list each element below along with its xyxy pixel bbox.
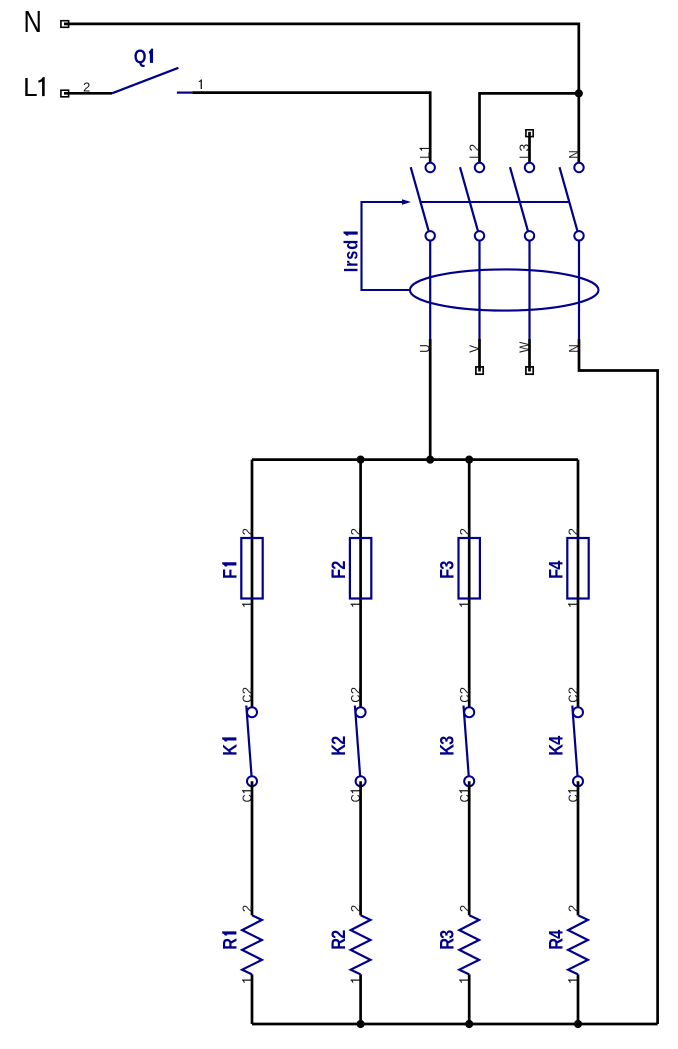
RCD Irsd1 toroid ellipse bbox=[410, 269, 599, 310]
wire bottom bus bbox=[252, 1023, 658, 1026]
RCD Irsd1 blade pole1 bbox=[411, 167, 429, 231]
svg-text:F: F bbox=[219, 569, 241, 579]
wire through fuse F4 bbox=[577, 538, 580, 599]
contact K3 upper circle bbox=[464, 707, 474, 717]
resistor R3 bbox=[459, 915, 479, 974]
svg-text:C: C bbox=[566, 694, 581, 702]
wire L3 terminal to RCD L3 pole bbox=[528, 132, 531, 168]
contact K3 lower circle bbox=[464, 776, 474, 786]
svg-text:F2: F2 bbox=[328, 561, 350, 579]
svg-text:2: 2 bbox=[457, 687, 472, 694]
svg-text:N: N bbox=[565, 151, 581, 159]
contact K1 blade bbox=[246, 706, 251, 777]
svg-text:2: 2 bbox=[457, 528, 472, 535]
svg-text:L: L bbox=[23, 72, 37, 102]
wire W output to terminal bbox=[528, 339, 531, 372]
wire contact K4 to resistor R4 bbox=[577, 781, 580, 915]
wire contact K1 to resistor R1 bbox=[251, 781, 254, 915]
svg-text:Q: Q bbox=[134, 46, 147, 68]
wire through fuse F1 bbox=[251, 538, 254, 599]
svg-text:K3: K3 bbox=[436, 736, 458, 756]
svg-text:C: C bbox=[457, 694, 472, 702]
svg-text:2: 2 bbox=[348, 687, 363, 694]
svg-text:2: 2 bbox=[240, 528, 255, 535]
svg-text:K2: K2 bbox=[328, 736, 350, 756]
svg-text:R4: R4 bbox=[545, 930, 567, 950]
terminal square W bbox=[526, 367, 533, 374]
svg-text:2: 2 bbox=[240, 905, 255, 912]
svg-text:K4: K4 bbox=[545, 736, 567, 756]
svg-text:2: 2 bbox=[83, 79, 90, 94]
fuse F2 bbox=[350, 538, 371, 599]
svg-text:2: 2 bbox=[348, 905, 363, 912]
junction dot top bus branch2 bbox=[357, 456, 365, 464]
wire L2 branch from N junction bbox=[480, 93, 579, 167]
contact K2 upper circle bbox=[356, 707, 366, 717]
RCD Irsd1 arrowhead bbox=[402, 199, 411, 205]
wire pole4 lower contact to toroid exit (blue) bbox=[578, 236, 580, 339]
RCD Irsd1 blade pole3 bbox=[510, 167, 528, 231]
fuse F3 bbox=[459, 538, 480, 599]
terminal square V bbox=[476, 367, 483, 374]
svg-text:2: 2 bbox=[466, 144, 482, 152]
wire N return: RCD N output right and down to bottom bus bbox=[579, 339, 658, 1024]
wire N: from N terminal right then down to RCD N pole bbox=[64, 24, 579, 168]
wire resistor R3 to bottom bus bbox=[468, 974, 471, 1024]
wire contact K3 to resistor R3 bbox=[468, 781, 471, 915]
junction dot bottom bus branch2 bbox=[357, 1020, 365, 1028]
RCD Irsd1 lower contact circles bbox=[426, 231, 435, 240]
wire resistor R1 to bottom bus bbox=[251, 974, 254, 1024]
branch 2 wire: top bus to fuse F2 bbox=[359, 460, 362, 538]
branch 1 wire: top bus to fuse F1 bbox=[251, 460, 254, 538]
wire pole3 lower contact to toroid exit (blue) bbox=[528, 236, 530, 339]
pin 1 of F2 bbox=[351, 604, 361, 607]
contact K1 upper circle bbox=[247, 707, 257, 717]
RCD Irsd1 blade pole4 bbox=[560, 167, 578, 231]
svg-text:2: 2 bbox=[457, 905, 472, 912]
wire Q1 to RCD L1 pole bbox=[192, 93, 430, 168]
svg-text:L: L bbox=[516, 152, 532, 158]
pin 1 of F4 bbox=[568, 604, 578, 607]
svg-text:N: N bbox=[24, 5, 42, 40]
svg-text:R2: R2 bbox=[328, 930, 350, 950]
RCD Irsd1 top contact circles bbox=[426, 163, 435, 172]
RCD Irsd1 coupling bar bbox=[420, 201, 570, 203]
svg-text:3: 3 bbox=[516, 144, 532, 152]
wire pole1 lower contact to toroid exit (blue) bbox=[429, 236, 431, 339]
pin 1 of F1 bbox=[242, 604, 252, 607]
wire L1 terminal to switch bbox=[64, 92, 112, 95]
branch 3 wire: top bus to fuse F3 bbox=[468, 460, 471, 538]
resistor R4 bbox=[568, 915, 588, 974]
wire resistor R4 to bottom bus bbox=[577, 974, 580, 1024]
pin 1 of F3 bbox=[459, 604, 469, 607]
switch Q1 blade bbox=[112, 68, 178, 94]
RCD Irsd1 trip link with arrow bbox=[362, 202, 410, 290]
contact K2 blade bbox=[355, 706, 360, 777]
fuse F1 bbox=[241, 538, 262, 599]
branch 4 wire: top bus to fuse F4 bbox=[577, 460, 580, 538]
svg-text:Irsd: Irsd bbox=[340, 239, 362, 272]
contact K3 blade bbox=[464, 706, 469, 777]
pin 1 of Q1 bbox=[199, 79, 202, 89]
junction dot bottom bus branch4 bbox=[574, 1020, 582, 1028]
terminal square L3 bbox=[526, 130, 533, 137]
wire contact K2 to resistor R2 bbox=[359, 781, 362, 915]
junction dot top bus U feed bbox=[426, 456, 434, 464]
svg-text:F3: F3 bbox=[436, 561, 458, 579]
pin 1 of R1 bbox=[242, 979, 252, 982]
wire fuse F4 to contact K4 bbox=[577, 599, 580, 713]
wire fuse F3 to contact K3 bbox=[468, 599, 471, 713]
wire pole2 lower contact to toroid exit (blue) bbox=[478, 236, 480, 339]
fuse F4 bbox=[567, 538, 588, 599]
contact K2 lower circle bbox=[356, 776, 366, 786]
svg-text:2: 2 bbox=[566, 905, 581, 912]
resistor R2 bbox=[351, 915, 371, 974]
contact K4 blade bbox=[572, 706, 577, 777]
svg-text:F4: F4 bbox=[545, 561, 567, 579]
junction dot bottom bus branch3 bbox=[465, 1020, 473, 1028]
svg-text:L: L bbox=[417, 152, 433, 158]
wire top bus bbox=[252, 458, 578, 461]
svg-text:R3: R3 bbox=[436, 930, 458, 950]
svg-text:K: K bbox=[219, 744, 241, 756]
svg-text:R: R bbox=[219, 938, 241, 950]
wire fuse F2 to contact K2 bbox=[359, 599, 362, 713]
pin 1 of R3 bbox=[459, 979, 469, 982]
resistor R1 bbox=[242, 915, 262, 974]
RCD Irsd1 blade pole2 bbox=[460, 167, 478, 231]
pin 1 of R2 bbox=[351, 979, 361, 982]
svg-text:2: 2 bbox=[566, 528, 581, 535]
svg-text:2: 2 bbox=[566, 687, 581, 694]
svg-text:C: C bbox=[348, 694, 363, 702]
svg-text:2: 2 bbox=[348, 528, 363, 535]
junction dot N/L2 bbox=[575, 89, 583, 97]
wire resistor R2 to bottom bus bbox=[359, 974, 362, 1024]
junction dot top bus branch3 bbox=[465, 456, 473, 464]
contact K4 lower circle bbox=[573, 776, 583, 786]
contact K1 lower circle bbox=[247, 776, 257, 786]
terminal square N bbox=[61, 21, 69, 28]
wire through fuse F2 bbox=[359, 538, 362, 599]
contact K4 upper circle bbox=[573, 707, 583, 717]
wire V output to terminal bbox=[478, 339, 481, 372]
wire fuse F1 to contact K1 bbox=[251, 599, 254, 713]
svg-text:C: C bbox=[240, 694, 255, 702]
svg-text:L: L bbox=[466, 152, 482, 158]
terminal square L1 bbox=[61, 90, 69, 97]
svg-text:2: 2 bbox=[240, 687, 255, 694]
pin 1 of R4 bbox=[568, 979, 578, 982]
wire through fuse F3 bbox=[468, 538, 471, 599]
switch Q1 fixed contact stub bbox=[177, 91, 192, 93]
wire U output to top bus bbox=[429, 339, 432, 460]
